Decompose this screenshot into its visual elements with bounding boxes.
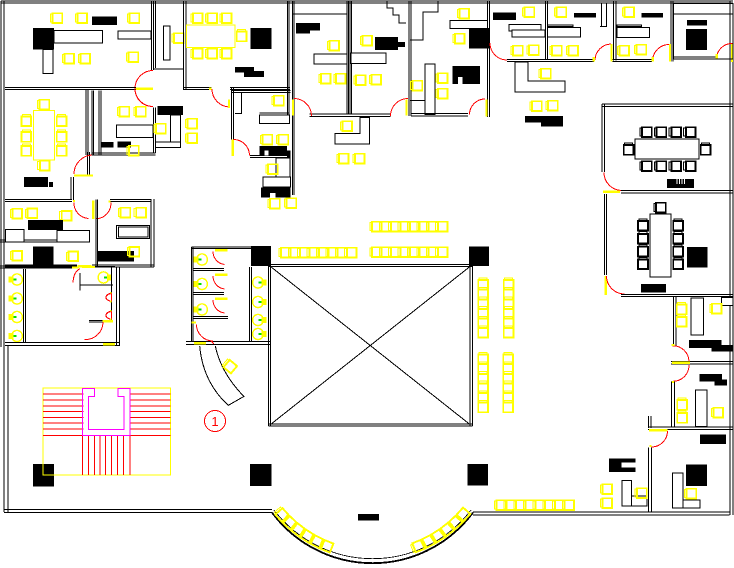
atrium diagonal 1 <box>271 267 471 425</box>
toilets toilet-room <box>253 277 266 288</box>
desk roomA <box>548 25 574 27</box>
roomRB black unit <box>700 374 723 382</box>
chair cluster B mid <box>266 164 278 174</box>
reception desk <box>515 62 565 92</box>
wall: conf E1 left <box>601 104 603 172</box>
wall: mid partition A <box>287 1 289 115</box>
door arc conf L <box>74 155 93 174</box>
roomRA black unit <box>689 340 722 348</box>
door arc left-mid double <box>74 202 89 218</box>
chairs room4 <box>436 73 448 83</box>
wall: corridor bottom mid <box>186 341 270 343</box>
wall: br divider stub <box>648 416 650 428</box>
svg-text:1: 1 <box>211 414 218 429</box>
door jamb conference TL <box>209 87 212 90</box>
conf E1 chairs bottom <box>640 161 652 171</box>
chair col right of atrium 1a <box>478 278 488 290</box>
door leaf corridor <box>485 99 487 116</box>
chairs reception <box>530 101 542 111</box>
red hinge mark <box>211 341 214 344</box>
desks room6 <box>5 229 24 241</box>
door leaf conf L <box>74 175 93 177</box>
chairs room8 <box>118 208 130 218</box>
desk room5 <box>509 25 541 32</box>
conf E1 media item <box>667 179 694 188</box>
wall: mid partition D <box>487 1 489 117</box>
label text conf L <box>24 177 48 187</box>
desk room2 <box>314 54 347 64</box>
wall: conf E2 left <box>604 194 606 275</box>
door leaves bathroom1 top <box>72 266 79 268</box>
desk room1 vertical <box>43 50 53 74</box>
chair copyroom <box>272 96 284 106</box>
chair room8 bottom <box>127 247 139 257</box>
door arc room5 <box>490 43 507 60</box>
conference TL chairs top <box>191 13 203 23</box>
room7 cabinet <box>33 247 53 267</box>
partition room4 <box>425 64 435 115</box>
conf E2 chair top <box>654 203 666 213</box>
conference TL chair end <box>237 29 247 41</box>
toilets bathroom1 <box>9 274 22 285</box>
door leaf room2door <box>292 99 294 115</box>
shelf roomB <box>642 13 664 18</box>
roomRA shelf <box>722 298 734 306</box>
door arc bathroom1 <box>85 322 104 339</box>
door leaf br top <box>649 429 668 432</box>
wall: rcol h1 <box>671 361 733 363</box>
door jamb left-mid <box>73 200 75 202</box>
wall: bathroom2 top <box>192 246 252 248</box>
shelf roomA <box>574 13 596 18</box>
black desk right of office <box>158 106 183 115</box>
entrance mat <box>358 514 379 521</box>
conf E1 chair left <box>624 143 634 155</box>
chairs roomB <box>617 46 629 56</box>
conf E2 sideboard <box>641 284 666 293</box>
wall: left-mid top <box>5 199 72 201</box>
door leaf copyroom <box>231 140 234 157</box>
conf L chairs left <box>22 114 32 126</box>
column atrium BR <box>468 464 489 486</box>
roomBL black unit <box>609 459 636 472</box>
chairs room3 bottom <box>354 75 366 85</box>
label text room6 <box>28 220 63 230</box>
wall: small office top <box>85 87 136 89</box>
desk small office <box>116 125 153 138</box>
column stairs <box>33 464 54 487</box>
desk roomB <box>617 25 642 27</box>
wall: left exterior <box>0 1 2 347</box>
door arc bathroom2 <box>197 325 214 342</box>
column atrium TL <box>251 246 271 266</box>
door leaf bathroom2 bottom <box>194 342 206 345</box>
wall: conf L right <box>87 152 89 176</box>
wall: rcol divider1 <box>673 297 675 346</box>
wall: bathroom1 stub <box>89 320 113 322</box>
wall: conference TL left <box>183 1 185 90</box>
wall: bottom-left exterior <box>4 509 272 511</box>
staircase steps red <box>43 393 84 395</box>
wall: sink alcove <box>79 273 81 291</box>
stall divider 1 <box>193 268 224 270</box>
roomRA chairs <box>677 302 687 314</box>
chairs room1 bottom <box>62 54 74 64</box>
desk T cluster A <box>335 118 369 145</box>
black unit cluster B <box>261 187 290 197</box>
atrium bottom wall <box>269 423 473 425</box>
wall: roomA niche <box>601 3 603 27</box>
chair row above atrium 3 <box>279 248 291 258</box>
door arc room3 <box>391 99 409 117</box>
column atrium BL <box>250 464 272 486</box>
entrance chairs right <box>410 540 425 553</box>
chair room5 top <box>522 7 534 17</box>
chair col right of atrium 2b <box>503 352 513 364</box>
door arc br <box>652 431 668 447</box>
wall: room1 right partition <box>151 1 153 70</box>
atrium diagonal 2 <box>271 267 471 425</box>
desk room4 top <box>450 21 488 29</box>
wall: mid partition B <box>346 1 348 114</box>
wall: mid partition C <box>408 1 410 116</box>
wall: room1 bottom <box>5 87 135 89</box>
chair room4 top <box>457 9 469 19</box>
wall: conf E1 top <box>602 103 733 105</box>
wall: rooms 2-3 bottom <box>310 113 391 115</box>
conf E1 table <box>635 139 699 159</box>
desk L right of office <box>171 115 181 144</box>
atrium top wall <box>269 264 472 266</box>
stall doors yellow <box>215 249 228 251</box>
desk room1 right <box>118 31 151 39</box>
door leaf conf E1 <box>603 190 620 193</box>
black desk cluster B <box>260 146 288 156</box>
label text conference TL <box>235 67 254 73</box>
chair right of office <box>154 124 166 134</box>
wall: copyroom left <box>231 88 233 140</box>
door arc copyroom <box>234 140 250 156</box>
roomRB desk <box>696 390 708 427</box>
conference TL table <box>187 25 236 48</box>
chair room2 <box>327 41 339 51</box>
door arc corridor C <box>717 43 733 58</box>
chair row above atrium 2 <box>370 247 382 257</box>
conf L chair bottom <box>38 161 50 171</box>
door jambs yellow <box>592 57 595 62</box>
wall: corridor top walls <box>507 59 594 61</box>
wall: bottom-right exterior <box>473 511 730 513</box>
stall divider 3 <box>193 316 228 318</box>
stall door arcs <box>213 252 225 265</box>
wall: left-mid right wall <box>150 199 152 267</box>
wall: room3 zigzag <box>387 1 406 23</box>
chairs cluster B top <box>260 135 272 145</box>
wall: conference TL bottom <box>184 87 212 89</box>
chairs cluster B bottom <box>268 199 280 209</box>
wall: conf E2 bottom <box>621 294 733 296</box>
staircase railing magenta <box>82 388 130 435</box>
entrance chairs left <box>274 507 289 522</box>
wall: mid partition E <box>545 1 547 60</box>
toilets bathroom2 <box>194 254 207 265</box>
wall: br divider <box>648 448 650 513</box>
chairs cluster A bottom <box>337 154 349 164</box>
chairs roomA <box>550 46 562 56</box>
desk room3 <box>351 53 386 64</box>
wall: small office cavity <box>98 91 100 155</box>
chair roomA top <box>554 7 566 17</box>
door leaf conf E2 <box>604 276 607 295</box>
black shelf room1 <box>92 17 117 26</box>
conf E2 chairs right <box>673 219 683 231</box>
chairs room7 <box>10 251 22 261</box>
chairs pair right <box>185 119 197 129</box>
chair room3 top <box>360 36 372 46</box>
roomRA chair2 <box>710 304 722 314</box>
atrium left wall <box>268 266 270 426</box>
wall: left-mid bottom2 <box>5 264 77 266</box>
chair roomB top <box>622 7 634 17</box>
door arc rcol1 <box>672 346 689 362</box>
wall: small office left chase <box>85 90 87 155</box>
door arc corridor B <box>653 45 669 61</box>
chair col right of atrium 1b <box>504 278 514 290</box>
chair row above atrium 1 <box>370 222 382 232</box>
wall: toilet room <box>249 267 251 342</box>
desk copyroom <box>260 112 290 114</box>
desk room1 long <box>54 31 103 44</box>
curved corridor wall <box>200 346 244 405</box>
wall: bathroom2 left <box>191 247 193 342</box>
wall: chase partition <box>155 1 157 68</box>
wall stub cluster B <box>250 155 291 157</box>
door arc small office <box>135 89 153 107</box>
chairs room5 <box>511 46 523 56</box>
door arc conf E1 <box>604 173 621 191</box>
wall: mid partition G <box>670 1 672 62</box>
cabinet room1 <box>33 28 54 50</box>
door arc conference TL <box>212 89 230 107</box>
cabinet room4 <box>469 28 490 49</box>
roomBL chairs <box>635 488 647 498</box>
door leaf br <box>650 445 652 447</box>
door arc conf E2 <box>607 276 625 294</box>
wall: br top <box>648 426 733 428</box>
chair mini room <box>172 33 184 43</box>
cabinet conference TL <box>251 28 272 49</box>
conf E1 chair right <box>701 143 711 155</box>
door leaf room1 <box>135 87 152 90</box>
wall: bathroom1 right <box>116 267 118 345</box>
wall: left-mid divider v <box>95 200 97 268</box>
desk mini room <box>164 26 171 60</box>
marker circle 1 <box>205 411 226 432</box>
wall: top exterior <box>1 0 733 2</box>
sink bathroom1 <box>98 272 111 283</box>
cabinet room5 <box>493 13 516 21</box>
stall divider 2 <box>193 292 224 294</box>
wall: corridor bottom left <box>5 342 120 344</box>
yellow table conf L <box>33 110 54 160</box>
conf L chairs right <box>57 114 67 126</box>
wall: bathroom1 inner col <box>23 269 25 342</box>
chair small office bottom <box>127 146 139 156</box>
conf E2 table <box>650 214 671 277</box>
chair reception top <box>539 69 551 79</box>
chair room4 mid <box>453 34 465 44</box>
atrium right wall <box>469 265 471 426</box>
roomBL desk <box>622 481 632 507</box>
wall: right exterior <box>729 1 731 515</box>
chairs room1 top <box>50 13 62 23</box>
door arc room1 (semicircle) <box>135 71 153 107</box>
staircase outline yellow <box>43 388 171 475</box>
label text room8 <box>97 251 134 261</box>
roomRB chairs <box>677 398 687 410</box>
conf E2 cabinet <box>687 247 708 268</box>
room C walls <box>674 4 734 60</box>
door arc room4 <box>470 99 486 115</box>
roomRA desk <box>691 298 704 335</box>
door arc corridor A <box>595 44 611 60</box>
wall: rcol divider2 <box>671 382 673 428</box>
black unit room3 <box>375 37 398 50</box>
desk room8 <box>117 226 150 239</box>
chair row bottom right <box>494 500 506 510</box>
door arc bathroom1 sink <box>73 269 80 283</box>
conference TL chairs bottom <box>191 49 203 59</box>
roomBR chair <box>684 489 696 499</box>
roomBR desk white <box>673 473 684 508</box>
urinal 2 <box>106 312 112 320</box>
roomBR desk black <box>700 435 726 445</box>
label text reception <box>525 116 563 123</box>
wall: conf E1 bottom <box>621 190 733 192</box>
chair cluster A <box>340 121 352 131</box>
conf L chair top <box>37 100 49 110</box>
chairs room2 bottom <box>319 74 331 84</box>
door arc room2 <box>294 99 312 117</box>
urinal 1 <box>106 294 112 302</box>
black unit room4 center <box>453 66 481 84</box>
wall: copyroom closet <box>241 93 243 114</box>
wall: room4 bottom <box>411 113 468 115</box>
rotated chair <box>222 358 237 373</box>
chairs small office <box>117 107 129 117</box>
wall: left-mid bottom1 <box>0 239 89 241</box>
door leaf left-mid <box>92 201 95 220</box>
wall: room4 zigzag <box>410 1 438 40</box>
conf E1 chairs top <box>640 127 652 137</box>
chair col right of atrium 2a <box>478 352 488 364</box>
door leaf left-mid bottom <box>77 265 91 268</box>
door leaf bathroom1 <box>103 320 114 323</box>
desk cluster B <box>276 158 290 177</box>
cabinet room2 <box>296 23 320 31</box>
column atrium TR <box>469 247 489 267</box>
roomBR cabinet <box>686 465 707 487</box>
wall: entrance curved facade <box>272 513 473 564</box>
door leaf rcol1 <box>672 362 690 365</box>
wall: mid partition F <box>613 1 615 61</box>
door arc rcol2 <box>673 365 689 381</box>
roomRB chair2 <box>711 408 723 418</box>
wall: small office bottom <box>92 152 156 154</box>
door leaf small office <box>136 87 153 90</box>
conf E2 chairs left <box>638 219 648 231</box>
chairs room6 <box>10 209 22 219</box>
copier roomC <box>687 20 707 26</box>
shelf line room2 <box>293 13 347 15</box>
label text small office <box>102 142 114 148</box>
wall: copyroom top <box>232 90 291 92</box>
wall: bathroom1 top <box>0 265 77 267</box>
